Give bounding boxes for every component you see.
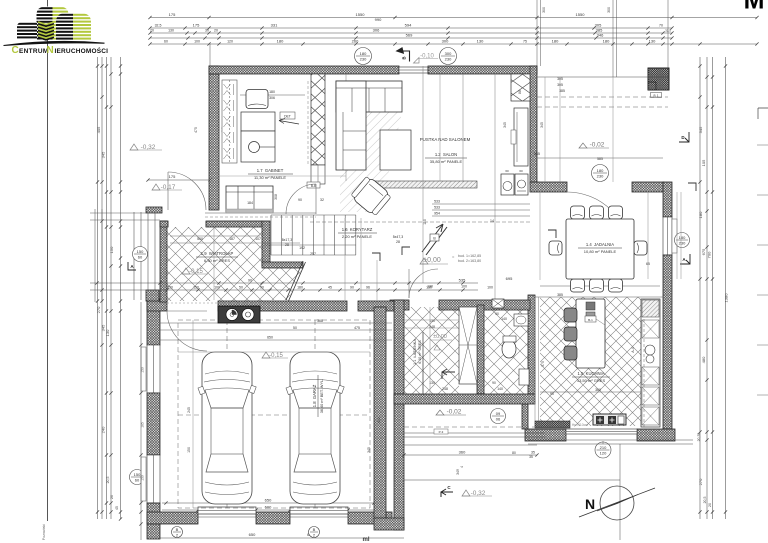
svg-text:20: 20 [150,29,154,33]
svg-text:A-4: A-4 [631,347,635,353]
svg-text:300: 300 [607,7,611,13]
svg-text:533: 533 [434,200,440,204]
svg-text:150: 150 [187,447,191,453]
svg-text:100: 100 [461,285,467,289]
svg-text:60: 60 [135,478,140,483]
svg-text:300: 300 [445,51,452,56]
svg-text:20: 20 [708,503,712,507]
svg-text:345: 345 [101,151,106,158]
svg-text:105: 105 [701,159,706,166]
svg-text:810: 810 [377,417,381,423]
svg-text:180: 180 [360,51,367,56]
svg-text:230: 230 [360,57,367,62]
svg-text:600: 600 [265,505,272,510]
svg-text:650: 650 [265,498,272,503]
svg-text:1.9 WIATROŁAP: 1.9 WIATROŁAP [201,251,234,256]
svg-text:150: 150 [193,286,199,290]
svg-text:954: 954 [434,212,440,216]
svg-text:90: 90 [550,392,554,396]
svg-text:60: 60 [164,40,168,44]
svg-text:1550: 1550 [356,12,366,17]
svg-text:150: 150 [141,367,145,373]
svg-text:120: 120 [227,40,233,44]
svg-text:360: 360 [459,450,466,455]
svg-text:585: 585 [534,152,540,156]
svg-text:107: 107 [255,237,261,241]
svg-text:187: 187 [229,237,235,241]
svg-text:60: 60 [505,169,509,173]
svg-text:130: 130 [105,329,110,336]
svg-text:100: 100 [214,286,220,290]
svg-text:180: 180 [269,90,275,94]
svg-text:45: 45 [328,286,332,290]
svg-text:1.8 GARAŻ: 1.8 GARAŻ [312,384,317,407]
svg-text:180: 180 [698,211,703,218]
svg-text:569: 569 [406,33,413,38]
svg-text:1.5 KUCHNIA: 1.5 KUCHNIA [578,371,605,376]
svg-text:308: 308 [274,194,278,200]
svg-text:35,80 m² PANELE: 35,80 m² PANELE [430,159,463,164]
svg-text:45: 45 [115,506,119,510]
svg-text:150: 150 [137,249,144,254]
svg-text:650: 650 [249,532,256,537]
svg-text:150: 150 [109,246,114,253]
svg-text:260: 260 [352,39,359,44]
svg-text:240: 240 [101,426,106,433]
svg-text:150: 150 [141,475,145,481]
svg-text:35: 35 [531,451,535,455]
svg-text:90: 90 [298,198,302,202]
svg-text:480: 480 [701,356,706,363]
svg-text:700: 700 [707,251,712,258]
svg-text:35: 35 [529,455,533,459]
svg-text:110: 110 [423,219,427,225]
svg-text:175: 175 [169,174,176,179]
svg-text:6,10 m² GRES: 6,10 m² GRES [418,340,422,364]
svg-text:06: 06 [496,417,501,422]
svg-text:257: 257 [310,252,316,256]
svg-text:230: 230 [679,241,686,246]
svg-text:184: 184 [247,201,253,205]
svg-text:346: 346 [597,33,604,38]
svg-text:32: 32 [320,198,324,202]
svg-text:345: 345 [503,122,507,128]
svg-text:2,20 m² PANELE: 2,20 m² PANELE [342,234,372,239]
svg-text:10,80 m² PANELE: 10,80 m² PANELE [584,249,617,254]
svg-text:DET: DET [284,114,291,118]
svg-text:533: 533 [434,206,440,210]
svg-text:30: 30 [205,29,209,33]
svg-text:230: 230 [597,174,604,179]
svg-text:B: B [176,527,179,532]
svg-text:585: 585 [597,157,603,161]
svg-text:28: 28 [396,240,400,244]
svg-text:36,40 m² BET. WYL.: 36,40 m² BET. WYL. [320,379,324,413]
svg-text:175: 175 [193,23,200,28]
svg-text:bud. 2=163,80: bud. 2=163,80 [458,259,481,263]
svg-text:Poznański: Poznański [42,524,46,540]
svg-text:331: 331 [271,23,278,28]
svg-text:20: 20 [110,495,114,499]
svg-text:300: 300 [442,39,449,44]
svg-text:90: 90 [350,286,354,290]
svg-text:180: 180 [297,286,303,290]
svg-text:±0,00: ±0,00 [433,334,447,340]
svg-text:M: M [744,0,765,15]
svg-text:1.4 JADALNIA: 1.4 JADALNIA [586,242,614,247]
svg-text:8x17,3: 8x17,3 [282,238,293,242]
svg-text:360: 360 [595,388,601,392]
svg-text:300: 300 [542,7,546,13]
svg-text:60: 60 [138,255,143,260]
svg-text:6,30 m² GRES: 6,30 m² GRES [204,258,230,263]
svg-text:14: 14 [490,219,494,223]
svg-text:5x47,3: 5x47,3 [393,235,404,239]
svg-text:28: 28 [285,243,289,247]
svg-text:675: 675 [701,248,706,255]
svg-text:P-3: P-3 [439,430,444,434]
svg-text:20: 20 [214,29,218,33]
svg-text:32,5: 32,5 [155,24,162,28]
svg-text:180: 180 [603,39,610,44]
svg-text:248: 248 [442,387,448,391]
svg-text:695: 695 [506,276,513,281]
svg-text:375: 375 [541,361,545,367]
svg-text:90: 90 [492,381,496,385]
svg-text:175: 175 [169,12,176,17]
svg-text:535: 535 [459,278,466,283]
svg-text:475: 475 [194,127,198,133]
svg-text:180: 180 [679,235,686,240]
svg-text:210: 210 [600,445,607,450]
svg-text:N: N [47,45,54,56]
svg-text:650: 650 [267,336,273,340]
svg-text:180: 180 [277,39,284,44]
svg-text:140: 140 [497,387,503,391]
svg-text:ENTRUM: ENTRUM [19,48,49,55]
svg-text:N: N [585,496,595,512]
svg-text:100: 100 [487,286,493,290]
svg-text:130: 130 [168,29,174,33]
svg-text:Hp=110cm: Hp=110cm [572,423,588,427]
svg-text:270: 270 [698,478,703,485]
svg-text:50: 50 [239,286,243,290]
svg-text:90: 90 [260,286,264,290]
svg-text:IERUCHOMOŚCI: IERUCHOMOŚCI [55,46,109,55]
svg-text:385: 385 [557,293,563,297]
svg-text:-0,02: -0,02 [590,142,605,149]
svg-text:88: 88 [518,90,522,94]
svg-text:50: 50 [293,326,297,330]
svg-text:345: 345 [367,447,371,453]
svg-text:1.7 GABINET: 1.7 GABINET [257,168,284,173]
svg-text:13,50 m² GRES: 13,50 m² GRES [577,378,606,383]
svg-text:1.1 ŁAZIENKA: 1.1 ŁAZIENKA [413,339,417,365]
svg-text:-0,02: -0,02 [447,409,462,416]
svg-text:180: 180 [552,39,559,44]
svg-text:368: 368 [317,319,323,323]
svg-text:70: 70 [659,24,663,28]
svg-text:1380: 1380 [724,293,729,303]
svg-text:09: 09 [496,411,501,416]
svg-text:405: 405 [96,126,101,133]
svg-text:270: 270 [96,306,101,313]
svg-text:ml: ml [362,537,369,543]
svg-text:140: 140 [501,317,507,321]
svg-text:130: 130 [167,286,173,290]
svg-text:bud. 1=162,85: bud. 1=162,85 [458,254,481,258]
svg-text:B-1: B-1 [588,318,593,322]
svg-text:230: 230 [445,57,452,62]
svg-text:130: 130 [427,285,433,289]
svg-text:500: 500 [197,237,203,241]
svg-text:120: 120 [600,451,607,456]
svg-text:594: 594 [405,23,412,28]
svg-text:4: 4 [460,466,464,468]
svg-text:192: 192 [299,246,305,250]
svg-text:96: 96 [366,286,370,290]
svg-text:1.6 KORYTARZ: 1.6 KORYTARZ [342,227,373,232]
svg-text:B: B [313,527,316,532]
svg-text:475: 475 [354,326,360,330]
svg-text:80: 80 [512,451,516,455]
svg-text:345: 345 [698,126,703,133]
svg-text:1.2 SALON: 1.2 SALON [435,152,457,157]
svg-text:100: 100 [194,40,200,44]
svg-text:20,5: 20,5 [703,497,707,504]
svg-text:180: 180 [597,168,604,173]
svg-text:345: 345 [540,122,544,128]
svg-text:C: C [12,45,19,56]
svg-text:90: 90 [495,312,499,316]
svg-text:20,5: 20,5 [106,477,110,484]
svg-text:185: 185 [141,422,145,428]
svg-text:20,35: 20,35 [697,433,701,442]
svg-text:75: 75 [523,40,527,44]
svg-text:245: 245 [187,407,191,413]
svg-text:130: 130 [649,39,656,44]
svg-text:990: 990 [375,17,382,22]
svg-text:60: 60 [519,169,523,173]
svg-text:90: 90 [248,279,252,283]
svg-text:349: 349 [456,469,460,475]
svg-text:306: 306 [269,96,275,100]
svg-text:130: 130 [477,39,484,44]
svg-text:1550: 1550 [576,12,586,17]
svg-text:306: 306 [373,28,380,33]
svg-text:B: B [402,56,407,59]
